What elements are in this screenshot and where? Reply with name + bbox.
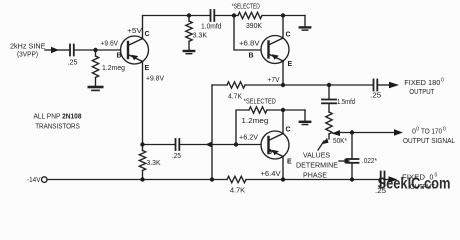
svg-text:VALUES: VALUES (303, 153, 330, 160)
node x212/rail (210, 177, 214, 181)
wire input cap to Q1 base (75, 49, 121, 51)
svg-text:+9.6V: +9.6V (101, 41, 119, 48)
svg-text:.022*: .022* (362, 158, 377, 165)
Q3 emitter wire (282, 157, 284, 180)
svg-text:+7V: +7V (268, 77, 280, 84)
svg-text:C: C (286, 32, 291, 39)
svg-text:C: C (286, 127, 291, 134)
capacitor .25 (interstage) (172, 139, 181, 160)
svg-text:SeekIC.com: SeekIC.com (378, 176, 451, 193)
ground (mid right) (300, 122, 310, 125)
svg-text:(3VPP): (3VPP) (17, 52, 38, 59)
svg-text:390K: 390K (246, 23, 262, 30)
svg-text:B: B (117, 53, 122, 60)
svg-text:+6.2V: +6.2V (239, 135, 258, 142)
svg-text:1.0mfd: 1.0mfd (201, 24, 221, 31)
svg-text:3.3K: 3.3K (147, 160, 161, 167)
Q2 labels (249, 32, 293, 85)
svg-text:3.3K: 3.3K (193, 33, 208, 40)
svg-text:OUTPUT: OUTPUT (409, 89, 435, 96)
transistor Q2 (PNP 2N108) (261, 36, 289, 64)
svg-text:1.2meg: 1.2meg (241, 118, 268, 125)
resistor 4.7K (bottom, emitter load) (227, 176, 246, 194)
output arrow 0-170 (394, 129, 403, 135)
ground (collector load) (184, 51, 194, 54)
node Q3 base junction (234, 142, 238, 146)
svg-text:4.7K: 4.7K (228, 94, 242, 101)
resistor 3.3K (emitter) (139, 145, 161, 180)
svg-text:.25: .25 (68, 60, 78, 67)
node 390K left (232, 13, 236, 17)
output arrow 0 deg (385, 176, 397, 182)
svg-text:C: C (145, 31, 150, 38)
note arrow to .022 (339, 159, 351, 164)
svg-text:PHASE: PHASE (303, 173, 327, 180)
capacitor .25 (0 deg output) (375, 172, 386, 196)
node .022/rail (350, 177, 354, 181)
resistor 3.3K (collector load) (186, 16, 208, 51)
node wiper/.022 (350, 130, 354, 134)
coupling wire y=144.5 (143, 144, 175, 146)
input arrow (45, 47, 69, 53)
svg-text:.25: .25 (172, 153, 181, 160)
capacitor 1.5mfd (322, 85, 355, 112)
svg-text:50K*: 50K* (333, 138, 347, 145)
svg-text:TRANSISTORS: TRANSISTORS (35, 123, 80, 130)
svg-text:+5V: +5V (127, 28, 142, 35)
node Q3 collector junction (281, 108, 285, 112)
svg-text:2kHz SINE: 2kHz SINE (10, 44, 46, 51)
node input/bias junction (93, 48, 97, 52)
wire 390K-left node down to Q2 base (234, 16, 261, 51)
Q3 labels (261, 127, 293, 179)
svg-text:FIXED 180: FIXED 180 (404, 80, 440, 87)
potentiometer 50K* (326, 112, 347, 145)
svg-text:B: B (249, 53, 254, 60)
svg-text:E: E (145, 65, 150, 72)
svg-text:-14V: -14V (27, 177, 41, 184)
label 0 TO 170 OUTPUT SIGNAL (403, 127, 455, 146)
capacitor 1.0mfd (201, 10, 221, 31)
svg-text:TO 170: TO 170 (421, 129, 442, 136)
svg-text:.25: .25 (370, 93, 381, 100)
node 3.3K/rail (140, 177, 144, 181)
label FIXED 0 OUTPUT (402, 173, 438, 192)
transistor Q3 (PNP 2N108) (261, 131, 289, 159)
Q3 collector wire (282, 110, 284, 134)
vertical wire x=212 (+7V line to bottom rail) (211, 85, 213, 180)
capacitor .022* (347, 158, 378, 180)
input source label 2kHz SINE (3VPP) (10, 44, 46, 59)
svg-text:OUTPUT SIGNAL: OUTPUT SIGNAL (403, 138, 455, 145)
node Q2 emitter junction (281, 83, 285, 87)
Q1 labels (117, 28, 165, 83)
node Q3 emitter/rail (281, 177, 285, 181)
node emitter/3.3K/.25 (140, 142, 144, 146)
ground (top right) (300, 27, 310, 30)
capacitor .25 (180 deg output) (370, 80, 381, 100)
svg-text:+9.8V: +9.8V (146, 76, 164, 83)
node 390K right / Q2 collector (281, 13, 285, 17)
resistor 390K *SELECTED (232, 4, 263, 31)
junction arrow at (212,144.5) (206, 141, 213, 147)
Q2 emitter wire (282, 61, 284, 85)
ground (input bias) (89, 87, 102, 90)
bottom rail (47, 179, 227, 181)
capacitor C-in .25 (68, 45, 78, 67)
svg-text:0: 0 (416, 127, 419, 133)
Q1 emitter wire down (142, 62, 144, 145)
svg-text:+6.8V: +6.8V (239, 41, 260, 48)
resistor 1.2meg (input bias) (92, 50, 125, 86)
svg-text:E: E (287, 159, 292, 166)
svg-text:0: 0 (443, 127, 446, 133)
note ALL PNP 2N108 TRANSISTORS (34, 114, 82, 131)
svg-text:E: E (288, 61, 293, 68)
svg-text:DETERMINE: DETERMINE (296, 163, 338, 170)
svg-text:1.5mfd: 1.5mfd (337, 99, 355, 106)
resistor 4.7K (top, in +7V line) (227, 82, 245, 101)
note arrow to pot (318, 138, 329, 150)
svg-text:0: 0 (441, 78, 444, 84)
svg-text:+6.4V: +6.4V (261, 171, 281, 178)
wire wiper node down to .022 (351, 133, 353, 159)
transistor Q1 (PNP 2N108) (121, 36, 149, 64)
node top-rail / 3.3K (187, 13, 191, 17)
resistor 1.2meg *SELECTED (feedback) (241, 99, 275, 126)
label FIXED 180 OUTPUT (404, 78, 444, 97)
note VALUES DETERMINE PHASE (296, 153, 338, 180)
svg-text:*SELECTED: *SELECTED (232, 4, 260, 11)
pot wiper arrow (332, 130, 396, 136)
svg-text:*SELECTED: *SELECTED (244, 99, 276, 106)
Q1 collector wire up and top rail (143, 16, 189, 39)
Q2 collector wire (282, 16, 284, 39)
wire base node up to 1.2meg (236, 110, 249, 145)
+7V rail (y=85) (212, 84, 227, 86)
output arrow 180 (378, 82, 399, 88)
wire bend to ground (mid right) (304, 110, 306, 121)
svg-text:B: B (267, 149, 272, 156)
-14V terminal (27, 177, 47, 184)
svg-text:1.2meg: 1.2meg (102, 65, 125, 72)
svg-text:4.7K: 4.7K (230, 188, 245, 195)
node 1.5mfd junction (327, 83, 331, 87)
wire bend to ground (top right) (304, 16, 306, 27)
svg-text:ALL PNP 2N108: ALL PNP 2N108 (34, 114, 82, 121)
